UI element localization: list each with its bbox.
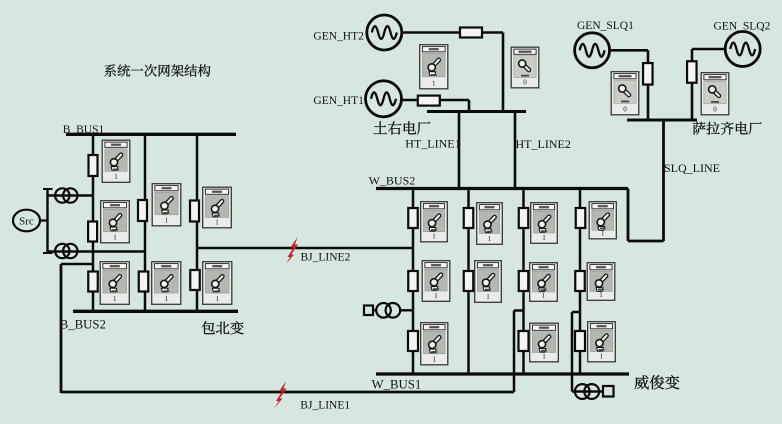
svg-text:1: 1 [165,217,169,225]
svg-text:SLQ_LINE: SLQ_LINE [664,161,720,175]
svg-text:0: 0 [523,79,527,87]
svg-text:1: 1 [432,233,436,241]
svg-text:GEN_HT2: GEN_HT2 [313,30,364,42]
svg-text:1: 1 [542,234,546,242]
svg-text:1: 1 [433,356,437,364]
svg-text:GEN_SLQ2: GEN_SLQ2 [714,21,771,33]
svg-text:B_BUS1: B_BUS1 [63,124,105,136]
svg-text:Src: Src [19,216,34,228]
svg-text:1: 1 [488,235,492,243]
svg-text:HT_LINE2: HT_LINE2 [516,137,571,151]
svg-text:1: 1 [600,353,604,361]
svg-text:1: 1 [599,291,603,299]
svg-text:1: 1 [434,292,438,300]
svg-text:1: 1 [542,292,546,300]
svg-text:1: 1 [542,353,546,361]
svg-text:1: 1 [432,80,436,88]
svg-text:1: 1 [113,295,117,303]
svg-text:GEN_HT1: GEN_HT1 [313,95,364,107]
svg-text:1: 1 [216,295,220,303]
svg-text:GEN_SLQ1: GEN_SLQ1 [577,20,634,32]
svg-text:1: 1 [215,219,219,227]
svg-text:W_BUS1: W_BUS1 [372,377,422,391]
svg-text:1: 1 [486,293,490,301]
svg-text:BJ_LINE1: BJ_LINE1 [300,400,350,412]
svg-text:0: 0 [623,106,627,114]
svg-text:BJ_LINE2: BJ_LINE2 [301,252,351,264]
svg-text:1: 1 [114,173,118,181]
svg-text:HT_LINE1: HT_LINE1 [405,137,460,151]
svg-text:B_BUS2: B_BUS2 [60,317,106,331]
svg-text:0: 0 [713,106,717,114]
svg-text:1: 1 [113,234,117,242]
svg-text:1: 1 [601,230,605,238]
svg-text:W_BUS2: W_BUS2 [369,174,416,188]
svg-text:1: 1 [165,295,169,303]
